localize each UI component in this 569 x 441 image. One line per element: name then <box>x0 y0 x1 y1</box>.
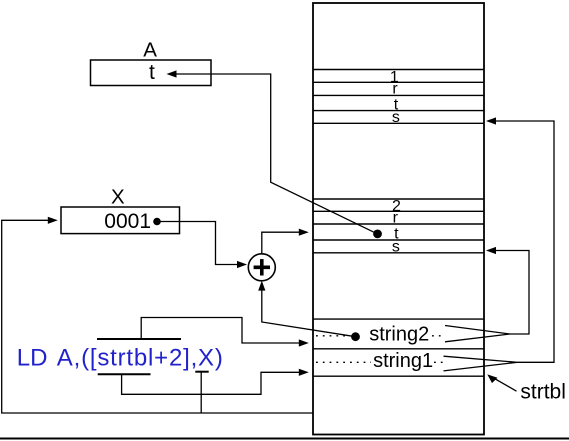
svg-text:string2: string2 <box>369 324 429 346</box>
svg-text:r: r <box>393 210 399 227</box>
svg-text:t: t <box>149 61 155 84</box>
svg-text:0001: 0001 <box>104 210 151 233</box>
svg-text:strtbl: strtbl <box>520 380 566 403</box>
svg-text:r: r <box>392 80 398 97</box>
svg-text:s: s <box>392 239 400 256</box>
svg-text:A: A <box>143 39 157 62</box>
svg-text:s: s <box>392 109 400 126</box>
svg-text:X: X <box>111 186 125 209</box>
svg-text:A,([strtbl+2],X): A,([strtbl+2],X) <box>57 345 224 372</box>
svg-text:string1: string1 <box>373 350 433 372</box>
svg-text:LD: LD <box>17 345 48 372</box>
